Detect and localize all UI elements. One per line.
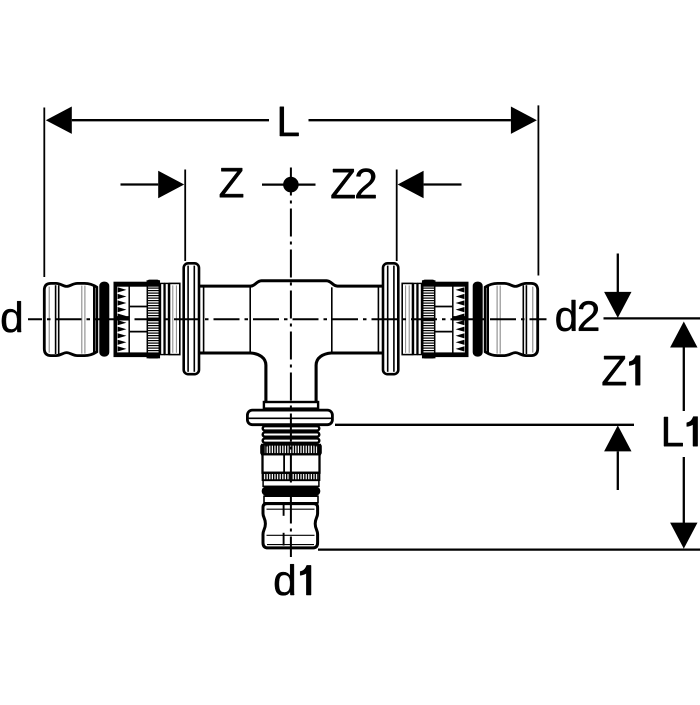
socket indicator tick upper: [283, 505, 285, 516]
dimension Z2 tail: [424, 183, 462, 185]
branch knurl band 2: [263, 473, 320, 480]
branch knurl band 1: [262, 445, 320, 455]
branch ring below O-ring: [264, 496, 318, 503]
left press connector: [44, 263, 199, 374]
tube segment line right b: [377, 287, 379, 352]
label Z: [220, 168, 243, 197]
tube segment line left a: [203, 287, 205, 352]
label d: [2, 301, 21, 332]
dimension L1 arrow up: [670, 322, 697, 348]
branch flange: [247, 410, 332, 425]
dimension d2 arrow: [604, 292, 631, 318]
centre reference dot: [283, 177, 299, 193]
branch ridge ring 2: [263, 432, 320, 436]
dimension L arrow left: [46, 107, 72, 134]
centre cross line: [262, 183, 316, 185]
dimension Z arrow: [158, 171, 184, 198]
branch collar: [264, 402, 318, 409]
right press connector (mirrored): [383, 263, 538, 374]
d2 reference line: [604, 317, 700, 319]
branch O-ring black band: [262, 487, 321, 496]
horizontal centreline: [28, 318, 547, 320]
label d2: [556, 300, 598, 331]
socket indicator tick lower: [283, 533, 285, 546]
socket inner line bottom: [267, 544, 314, 546]
dimension L1 arrow down: [670, 523, 697, 549]
dimension Z1 arrow up: [604, 425, 631, 451]
label Z1: [603, 356, 641, 386]
body bottom right outline into branch: [316, 353, 383, 402]
dimension L extension line right: [537, 105, 539, 275]
branch neck walls: [265, 425, 267, 447]
dimension L1 line lower: [683, 457, 685, 524]
dimension Z2 arrow: [398, 171, 424, 198]
dimension L1 line upper: [683, 348, 685, 412]
body top outline with centre bulge: [199, 281, 383, 286]
branch ring above O-ring: [263, 480, 319, 486]
label L1: [664, 417, 698, 447]
dimension L arrow right: [511, 107, 537, 134]
tube segment line left b: [249, 287, 251, 352]
dimension Z2 extension line: [396, 170, 398, 262]
dimension L line: [72, 119, 269, 121]
label Z2: [332, 169, 376, 199]
dimension Z extension line: [184, 170, 186, 262]
branch sleeve white band: [263, 454, 320, 472]
branch push-fit socket outline: [263, 504, 318, 548]
label d1: [275, 564, 311, 595]
L1 reference line bottom: [318, 548, 700, 550]
branch ridge ring 1: [263, 426, 320, 430]
socket inner line lower: [267, 534, 315, 536]
tube segment line right a: [331, 287, 333, 352]
branch ridge ring 3: [263, 438, 320, 442]
Z1 reference line: [335, 424, 634, 426]
label L: [280, 107, 299, 136]
body bottom left outline into branch: [199, 353, 266, 402]
dimension Z1 tail: [617, 451, 619, 490]
vertical centreline: [290, 168, 292, 558]
dimension d2 arrow line: [617, 254, 619, 294]
dimension L extension line left: [43, 108, 45, 278]
socket inner line upper: [267, 508, 315, 510]
dimension Z tail: [121, 183, 159, 185]
